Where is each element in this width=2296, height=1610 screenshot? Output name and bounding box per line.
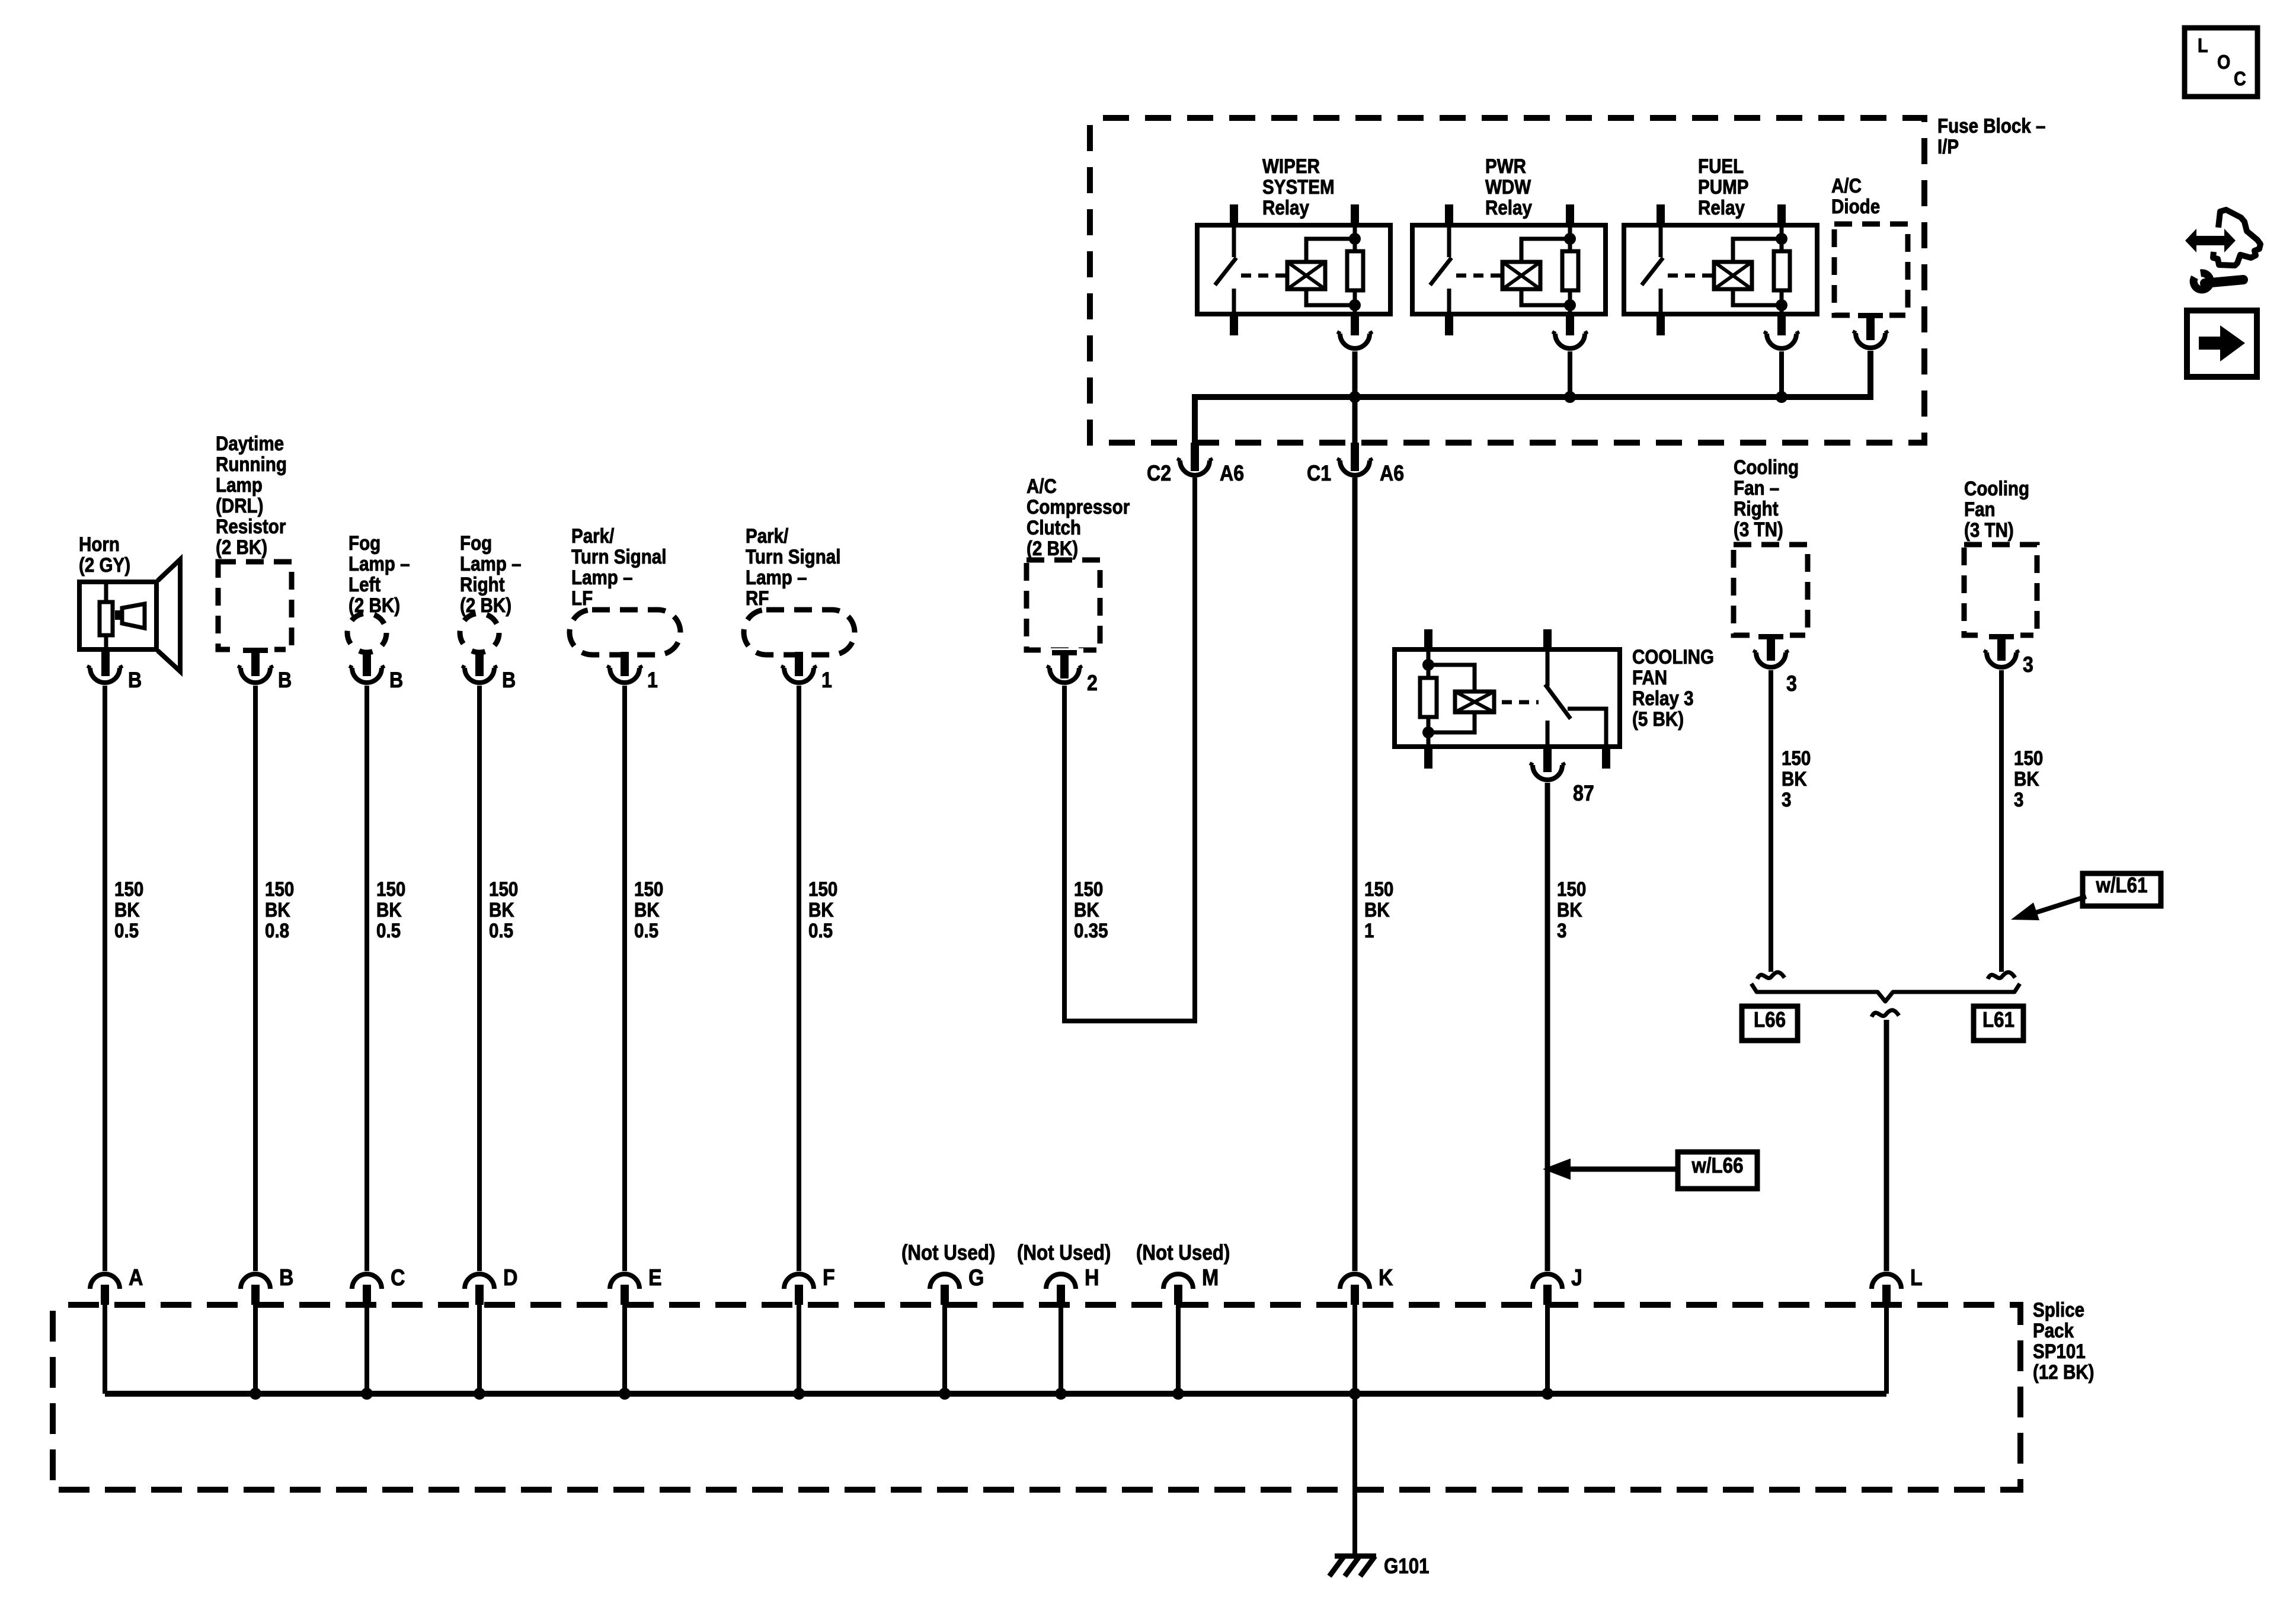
CF Relay3: resistor branch xyxy=(1427,649,1431,678)
Fog Lamp Right pin stub xyxy=(475,650,484,676)
wire L to splice bus xyxy=(1884,1305,1889,1394)
svg-text:150: 150 xyxy=(2014,747,2043,769)
svg-text:PWR: PWR xyxy=(1485,155,1526,177)
svg-text:E: E xyxy=(648,1265,662,1291)
relay K9 WIPER SYSTEM: body box xyxy=(1197,225,1390,314)
svg-text:M: M xyxy=(1202,1265,1219,1291)
svg-text:J: J xyxy=(1571,1265,1582,1291)
CF Relay3 top pin 1 xyxy=(1424,629,1432,649)
wire WIPER relay to C1 xyxy=(1352,351,1358,443)
svg-text:Relay: Relay xyxy=(1485,196,1532,219)
splice connector B stub xyxy=(251,1285,260,1305)
svg-text:C2: C2 xyxy=(1147,462,1171,486)
Cooling Fan - Right terminal xyxy=(1752,632,1790,639)
svg-text:1: 1 xyxy=(647,668,658,693)
Horn: body box xyxy=(79,582,156,649)
relay PWR WDW: bottom pin 2 xyxy=(1566,314,1574,335)
splice connector D arc xyxy=(465,1274,494,1289)
svg-text:(2 BK): (2 BK) xyxy=(348,594,400,616)
relay K9 WIPER SYSTEM: bottom pin 2 xyxy=(1351,314,1359,335)
wire SP101 to G101 xyxy=(1352,1394,1357,1556)
svg-text:C: C xyxy=(391,1265,405,1291)
splice connector F stub xyxy=(795,1285,803,1305)
svg-text:WDW: WDW xyxy=(1485,175,1531,198)
w/L61 arrow xyxy=(2034,897,2086,913)
relay PWR WDW: resistor xyxy=(1562,251,1578,290)
splice connector E stub xyxy=(621,1285,629,1305)
CF Relay3 bottom pin 1 xyxy=(1424,747,1432,769)
A/C Compressor Clutch dashed box xyxy=(1027,560,1100,650)
relay FUEL PUMP: junction lower xyxy=(1776,299,1787,311)
svg-text:(DRL): (DRL) xyxy=(216,494,263,517)
A/C Diode dashed box xyxy=(1834,224,1908,315)
connector C1 stub xyxy=(1351,443,1359,471)
svg-text:BK: BK xyxy=(114,898,140,921)
svg-text:(3 TN): (3 TN) xyxy=(1964,518,2014,541)
Park/Turn RF connector cup xyxy=(784,668,814,683)
svg-text:Clutch: Clutch xyxy=(1027,516,1081,539)
splice connector H stub xyxy=(1057,1285,1065,1305)
relay PWR WDW: body box xyxy=(1412,225,1606,314)
svg-text:Right: Right xyxy=(460,573,505,596)
CF Relay3 pin 87 connector cup xyxy=(1533,765,1562,780)
CF Relay3 junction upper xyxy=(1422,659,1434,671)
svg-text:(2 BK): (2 BK) xyxy=(460,594,511,616)
splice connector L arc xyxy=(1872,1274,1901,1289)
svg-text:Park/: Park/ xyxy=(571,524,614,547)
relay K9 WIPER SYSTEM: switch xyxy=(1232,225,1236,257)
svg-text:BK: BK xyxy=(1364,898,1390,921)
wire Fan down xyxy=(1999,670,2004,972)
Horn: internal element xyxy=(104,582,108,602)
svg-text:Fan –: Fan – xyxy=(1734,476,1779,499)
svg-text:87: 87 xyxy=(1573,782,1594,806)
Park/Turn Signal Lamp RF dashed outline xyxy=(744,610,855,655)
DRL Resistor connector cup xyxy=(241,668,270,683)
svg-text:C1: C1 xyxy=(1307,462,1331,486)
svg-text:0.5: 0.5 xyxy=(376,919,401,942)
CF Relay3: switch xyxy=(1546,649,1550,686)
junction D/SP101 bus xyxy=(474,1388,485,1400)
wire F to splice bus xyxy=(797,1305,801,1394)
wire relay 87 to splice J xyxy=(1545,783,1550,1271)
fuse block internal ground bus xyxy=(1195,351,1870,443)
Fog Lamp Right connector cup xyxy=(465,668,494,683)
wire PWR WDW relay to bus xyxy=(1568,351,1572,397)
relay K9 WIPER SYSTEM: output connector cup xyxy=(1340,334,1370,348)
wire A to splice bus xyxy=(103,1305,107,1394)
svg-text:Fuse Block –: Fuse Block – xyxy=(1937,114,2045,137)
junction G/SP101 bus xyxy=(939,1388,951,1400)
svg-text:(Not Used): (Not Used) xyxy=(1136,1241,1230,1265)
svg-text:A: A xyxy=(129,1265,143,1291)
svg-text:A/C: A/C xyxy=(1027,475,1057,497)
relay K9 WIPER SYSTEM: junction upper xyxy=(1349,233,1361,245)
relay PWR WDW: resistor wires xyxy=(1568,225,1572,251)
CF Relay3 top pin 2 xyxy=(1543,629,1552,649)
svg-text:Relay: Relay xyxy=(1698,196,1745,219)
wire Fog L to splice C xyxy=(364,686,369,1271)
relay FUEL PUMP: coil xyxy=(1714,262,1752,289)
svg-text:Lamp –: Lamp – xyxy=(746,566,807,588)
relay PWR WDW: switch xyxy=(1447,225,1451,257)
svg-text:Lamp –: Lamp – xyxy=(571,566,633,588)
svg-text:BK: BK xyxy=(376,898,402,921)
svg-text:RF: RF xyxy=(746,587,769,609)
svg-text:Lamp: Lamp xyxy=(216,473,263,496)
splice connector E arc xyxy=(610,1274,639,1289)
splice connector C stub xyxy=(363,1285,371,1305)
svg-text:150: 150 xyxy=(265,878,294,900)
relay FUEL PUMP: top pin 1 xyxy=(1657,204,1665,225)
splice connector J stub xyxy=(1543,1285,1552,1305)
wire D to splice bus xyxy=(477,1305,482,1394)
svg-text:Fog: Fog xyxy=(460,532,492,554)
splice connector A stub xyxy=(101,1285,109,1305)
svg-text:0.5: 0.5 xyxy=(634,919,658,942)
wire Horn to splice A xyxy=(103,686,107,1271)
junction F/SP101 bus xyxy=(793,1388,805,1400)
svg-text:K: K xyxy=(1379,1265,1393,1291)
svg-text:3: 3 xyxy=(1557,919,1566,942)
Cooling Fan dashed box xyxy=(1964,545,2037,635)
merge brace L66/L61 xyxy=(1751,984,2020,1001)
svg-text:(5 BK): (5 BK) xyxy=(1632,708,1684,730)
svg-text:PUMP: PUMP xyxy=(1698,175,1748,198)
svg-text:G: G xyxy=(968,1265,984,1291)
relay K9 WIPER SYSTEM: top pin 1 xyxy=(1230,204,1238,225)
svg-text:(2 BK): (2 BK) xyxy=(216,536,267,558)
splice connector G stub xyxy=(941,1285,949,1305)
svg-text:(Not Used): (Not Used) xyxy=(1017,1241,1111,1265)
wire B to splice bus xyxy=(253,1305,258,1394)
Daytime Running Lamp (DRL) Resistor dashed box xyxy=(218,562,292,649)
junction B/SP101 bus xyxy=(250,1388,261,1400)
forward arrow xyxy=(2199,337,2223,350)
wire RF to splice F xyxy=(797,686,801,1271)
svg-text:0.35: 0.35 xyxy=(1074,919,1108,942)
svg-text:FAN: FAN xyxy=(1632,666,1667,689)
svg-text:w/L66: w/L66 xyxy=(1691,1154,1744,1178)
connector C2 stub xyxy=(1191,443,1199,471)
svg-text:0.5: 0.5 xyxy=(489,919,513,942)
svg-text:Right: Right xyxy=(1734,497,1779,520)
svg-text:Diode: Diode xyxy=(1831,195,1880,217)
svg-text:B: B xyxy=(389,668,403,693)
svg-text:(2 BK): (2 BK) xyxy=(1027,537,1078,559)
junction M/SP101 bus xyxy=(1172,1388,1184,1400)
svg-text:L66: L66 xyxy=(1754,1008,1786,1032)
wire Fan R down xyxy=(1769,670,1773,972)
svg-text:L: L xyxy=(1910,1265,1923,1291)
splice connector B arc xyxy=(241,1274,270,1289)
splice connector L stub xyxy=(1882,1285,1891,1305)
A/C Diode terminal xyxy=(1851,312,1889,319)
relay K9 WIPER SYSTEM: bottom pin 1 xyxy=(1230,314,1238,335)
svg-text:150: 150 xyxy=(489,878,518,900)
relay PWR WDW: top pin 2 xyxy=(1566,204,1574,225)
relay K9 WIPER SYSTEM: coil wires xyxy=(1306,239,1355,262)
svg-text:G101: G101 xyxy=(1384,1554,1430,1579)
relay K9 WIPER SYSTEM: resistor xyxy=(1347,251,1363,290)
svg-text:Lamp –: Lamp – xyxy=(348,552,410,575)
Park/Turn LF pin stub xyxy=(621,652,629,676)
splice connector K stub xyxy=(1351,1285,1359,1305)
svg-text:0.5: 0.5 xyxy=(114,919,139,942)
relay FUEL PUMP: body box xyxy=(1624,225,1817,314)
svg-text:BK: BK xyxy=(1782,767,1807,790)
DRL Resistor terminal xyxy=(236,646,274,654)
splice connector A arc xyxy=(90,1274,120,1289)
svg-text:2: 2 xyxy=(1087,671,1098,696)
svg-text:0.8: 0.8 xyxy=(265,919,289,942)
junction K/SP101 bus xyxy=(1349,1388,1361,1400)
wire G to splice bus xyxy=(942,1305,947,1394)
svg-text:BK: BK xyxy=(1074,898,1099,921)
wire K to splice bus xyxy=(1352,1305,1357,1394)
svg-text:Pack: Pack xyxy=(2033,1319,2074,1342)
svg-text:Lamp –: Lamp – xyxy=(460,552,522,575)
svg-text:FUEL: FUEL xyxy=(1698,155,1744,177)
connector C1 cup xyxy=(1340,460,1370,475)
splice connector M arc xyxy=(1163,1274,1193,1289)
L61 tag box xyxy=(1974,1006,2023,1041)
junction C/SP101 bus xyxy=(361,1388,373,1400)
svg-text:BK: BK xyxy=(634,898,660,921)
svg-text:O: O xyxy=(2217,51,2230,73)
svg-text:Resistor: Resistor xyxy=(216,515,286,537)
CF Relay3 pin 87 stub xyxy=(1543,747,1552,772)
splice connector F arc xyxy=(784,1274,814,1289)
splice connector H arc xyxy=(1046,1274,1076,1289)
svg-text:B: B xyxy=(502,668,516,693)
relay PWR WDW: coil wires xyxy=(1521,239,1570,262)
relay FUEL PUMP: output connector cup xyxy=(1767,334,1796,348)
forward-arrow legend box xyxy=(2187,311,2257,377)
splice connector J arc xyxy=(1533,1274,1562,1289)
svg-text:3: 3 xyxy=(1782,788,1791,811)
relay FUEL PUMP: junction upper xyxy=(1776,233,1787,245)
junction H/SP101 bus xyxy=(1055,1388,1067,1400)
wire merged L66/L61 to splice L xyxy=(1884,1020,1889,1271)
ground symbol G101 xyxy=(1335,1554,1376,1559)
svg-text:L: L xyxy=(2198,34,2208,56)
svg-text:Horn: Horn xyxy=(79,533,120,555)
svg-text:150: 150 xyxy=(1782,747,1811,769)
vehicle-repair icon: outline xyxy=(2213,210,2260,265)
svg-text:A6: A6 xyxy=(1220,462,1244,486)
svg-text:Fog: Fog xyxy=(348,532,380,554)
relay K9 WIPER SYSTEM: top pin 2 xyxy=(1351,204,1359,225)
svg-text:3: 3 xyxy=(1786,672,1797,696)
svg-text:w/L61: w/L61 xyxy=(2096,873,2148,898)
wire H to splice bus xyxy=(1059,1305,1063,1394)
relay PWR WDW: junction lower xyxy=(1564,299,1576,311)
CF Relay3: coil loop xyxy=(1428,665,1475,692)
w/L66 arrow xyxy=(1569,1167,1678,1172)
A/C Diode connector cup xyxy=(1856,333,1885,348)
svg-text:1: 1 xyxy=(1364,919,1374,942)
CF Relay3 junction lower xyxy=(1422,726,1434,738)
relay FUEL PUMP: bottom pin 1 xyxy=(1657,314,1665,335)
relay K9 WIPER SYSTEM: coil xyxy=(1287,262,1325,289)
relay PWR WDW: junction upper xyxy=(1564,233,1576,245)
svg-text:WIPER: WIPER xyxy=(1262,155,1320,177)
relay FUEL PUMP: top pin 2 xyxy=(1777,204,1786,225)
Cooling Fan - Right connector cup xyxy=(1756,652,1786,667)
vehicle-repair icon: double arrow xyxy=(2185,229,2236,252)
svg-text:SYSTEM: SYSTEM xyxy=(1262,175,1335,198)
svg-text:COOLING: COOLING xyxy=(1632,645,1714,668)
svg-text:BK: BK xyxy=(808,898,834,921)
w/L66 callout box xyxy=(1678,1152,1757,1189)
svg-text:BK: BK xyxy=(265,898,290,921)
svg-text:Turn Signal: Turn Signal xyxy=(571,545,666,568)
svg-text:Park/: Park/ xyxy=(746,524,788,547)
wire M to splice bus xyxy=(1176,1305,1181,1394)
junction C1/bus xyxy=(1349,391,1361,403)
splice connector M stub xyxy=(1174,1285,1182,1305)
relay PWR WDW: coil xyxy=(1502,262,1540,289)
relay FUEL PUMP: resistor wires xyxy=(1780,225,1784,251)
Fog Lamp Left pin stub xyxy=(363,650,371,676)
relay PWR WDW: output connector cup xyxy=(1555,334,1585,348)
COOLING FAN Relay 3: body box xyxy=(1395,649,1620,747)
CF Relay3 bottom pin 3 xyxy=(1602,747,1610,769)
svg-text:Compressor: Compressor xyxy=(1027,495,1130,518)
relay K9 WIPER SYSTEM: coil control dashes xyxy=(1241,274,1287,278)
svg-text:B: B xyxy=(128,668,142,693)
wire J to splice bus xyxy=(1545,1305,1550,1394)
wire break symbol (Fan R) xyxy=(1757,972,1785,979)
relay FUEL PUMP: coil wires xyxy=(1733,239,1782,262)
svg-text:Daytime: Daytime xyxy=(216,432,284,454)
svg-text:BK: BK xyxy=(1557,898,1582,921)
A/C Compressor Clutch terminal xyxy=(1045,648,1083,657)
svg-text:Cooling: Cooling xyxy=(1964,477,2029,500)
svg-text:150: 150 xyxy=(1557,878,1586,900)
svg-text:C: C xyxy=(2234,68,2246,89)
wire A/C Clutch to C2 xyxy=(1064,478,1195,1021)
svg-text:LF: LF xyxy=(571,587,593,609)
wire C to splice bus xyxy=(364,1305,369,1394)
wire FUEL PUMP relay to bus xyxy=(1779,351,1784,397)
svg-text:3: 3 xyxy=(2014,788,2023,811)
junction PWR/bus xyxy=(1564,391,1576,403)
splice connector K arc xyxy=(1340,1274,1370,1289)
svg-text:A6: A6 xyxy=(1380,462,1404,486)
svg-text:150: 150 xyxy=(634,878,663,900)
relay FUEL PUMP: resistor xyxy=(1774,251,1790,290)
relay PWR WDW: top pin 1 xyxy=(1445,204,1453,225)
relay K9 WIPER SYSTEM: resistor wires xyxy=(1353,225,1357,251)
svg-text:(3 TN): (3 TN) xyxy=(1734,518,1783,540)
wire LF to splice E xyxy=(622,686,627,1271)
relay FUEL PUMP: switch xyxy=(1659,225,1663,257)
Cooling Fan - Right dashed box xyxy=(1734,545,1808,635)
wire E to splice bus xyxy=(622,1305,627,1394)
svg-text:Turn Signal: Turn Signal xyxy=(746,545,840,568)
svg-text:(2 GY): (2 GY) xyxy=(79,553,130,576)
svg-text:SP101: SP101 xyxy=(2033,1340,2086,1362)
wire C1 to splice K xyxy=(1352,478,1358,1271)
junction E/SP101 bus xyxy=(619,1388,631,1400)
Splice Pack SP101 dashed box xyxy=(53,1305,2020,1490)
junction FUEL/bus xyxy=(1776,391,1787,403)
LOC legend box xyxy=(2185,28,2257,97)
svg-text:Fan: Fan xyxy=(1964,498,1996,520)
svg-text:F: F xyxy=(823,1265,835,1291)
svg-text:Cooling: Cooling xyxy=(1734,456,1799,478)
splice connector G arc xyxy=(930,1274,960,1289)
relay FUEL PUMP: bottom pin 2 xyxy=(1777,314,1786,335)
Fog Lamp Left connector cup xyxy=(352,668,382,683)
svg-text:(Not Used): (Not Used) xyxy=(901,1241,995,1265)
svg-text:BK: BK xyxy=(489,898,514,921)
splice connector C arc xyxy=(352,1274,382,1289)
splice connector D stub xyxy=(475,1285,484,1305)
svg-text:3: 3 xyxy=(2023,653,2033,677)
wire break symbol (Fan) xyxy=(1988,972,2015,979)
relay PWR WDW: coil control dashes xyxy=(1456,274,1502,278)
L66 tag box xyxy=(1742,1006,1798,1041)
svg-text:B: B xyxy=(279,1265,294,1291)
Horn: trumpet flare xyxy=(158,559,180,671)
svg-text:Running: Running xyxy=(216,453,287,475)
Horn pin stub xyxy=(101,649,110,676)
relay K9 WIPER SYSTEM: junction lower xyxy=(1349,299,1361,311)
svg-text:150: 150 xyxy=(114,878,143,900)
svg-text:150: 150 xyxy=(1074,878,1103,900)
svg-text:150: 150 xyxy=(808,878,837,900)
Park/Turn RF pin stub xyxy=(795,652,803,676)
Fog Lamp - Left dashed circle xyxy=(347,613,386,652)
svg-text:B: B xyxy=(278,668,292,693)
svg-text:150: 150 xyxy=(376,878,405,900)
relay PWR WDW: bottom pin 1 xyxy=(1445,314,1453,335)
relay FUEL PUMP: coil control dashes xyxy=(1668,274,1714,278)
svg-text:Relay: Relay xyxy=(1262,196,1309,219)
Fuse Block - I/P dashed box xyxy=(1090,118,1924,443)
svg-text:A/C: A/C xyxy=(1831,174,1862,197)
svg-text:Left: Left xyxy=(348,573,381,596)
svg-text:Splice: Splice xyxy=(2033,1298,2084,1321)
svg-text:BK: BK xyxy=(2014,767,2039,790)
Park/Turn LF connector cup xyxy=(610,668,639,683)
wire DRL to splice B xyxy=(253,686,258,1271)
A/C Compressor Clutch connector cup xyxy=(1050,668,1079,683)
w/L61 callout box xyxy=(2083,873,2161,906)
Park/Turn Signal Lamp LF dashed outline xyxy=(570,610,680,655)
wire break symbol (below brace) xyxy=(1872,1010,1899,1017)
Cooling Fan terminal xyxy=(1982,632,2020,639)
connector C2 cup xyxy=(1180,460,1210,475)
svg-text:H: H xyxy=(1085,1265,1099,1291)
splice bus SP101 xyxy=(105,1391,1886,1397)
CF Relay3: coil xyxy=(1455,692,1494,712)
junction J/SP101 bus xyxy=(1542,1388,1553,1400)
Fog Lamp - Right dashed circle xyxy=(460,613,499,652)
svg-text:(12 BK): (12 BK) xyxy=(2033,1361,2094,1383)
wire Fog R to splice D xyxy=(477,686,482,1271)
CF Relay3: control dashes xyxy=(1502,700,1539,705)
svg-text:D: D xyxy=(503,1265,518,1291)
svg-text:150: 150 xyxy=(1364,878,1393,900)
Horn connector cup xyxy=(90,668,120,683)
svg-text:0.5: 0.5 xyxy=(808,919,833,942)
svg-text:Relay 3: Relay 3 xyxy=(1632,687,1694,709)
svg-text:1: 1 xyxy=(821,668,832,693)
